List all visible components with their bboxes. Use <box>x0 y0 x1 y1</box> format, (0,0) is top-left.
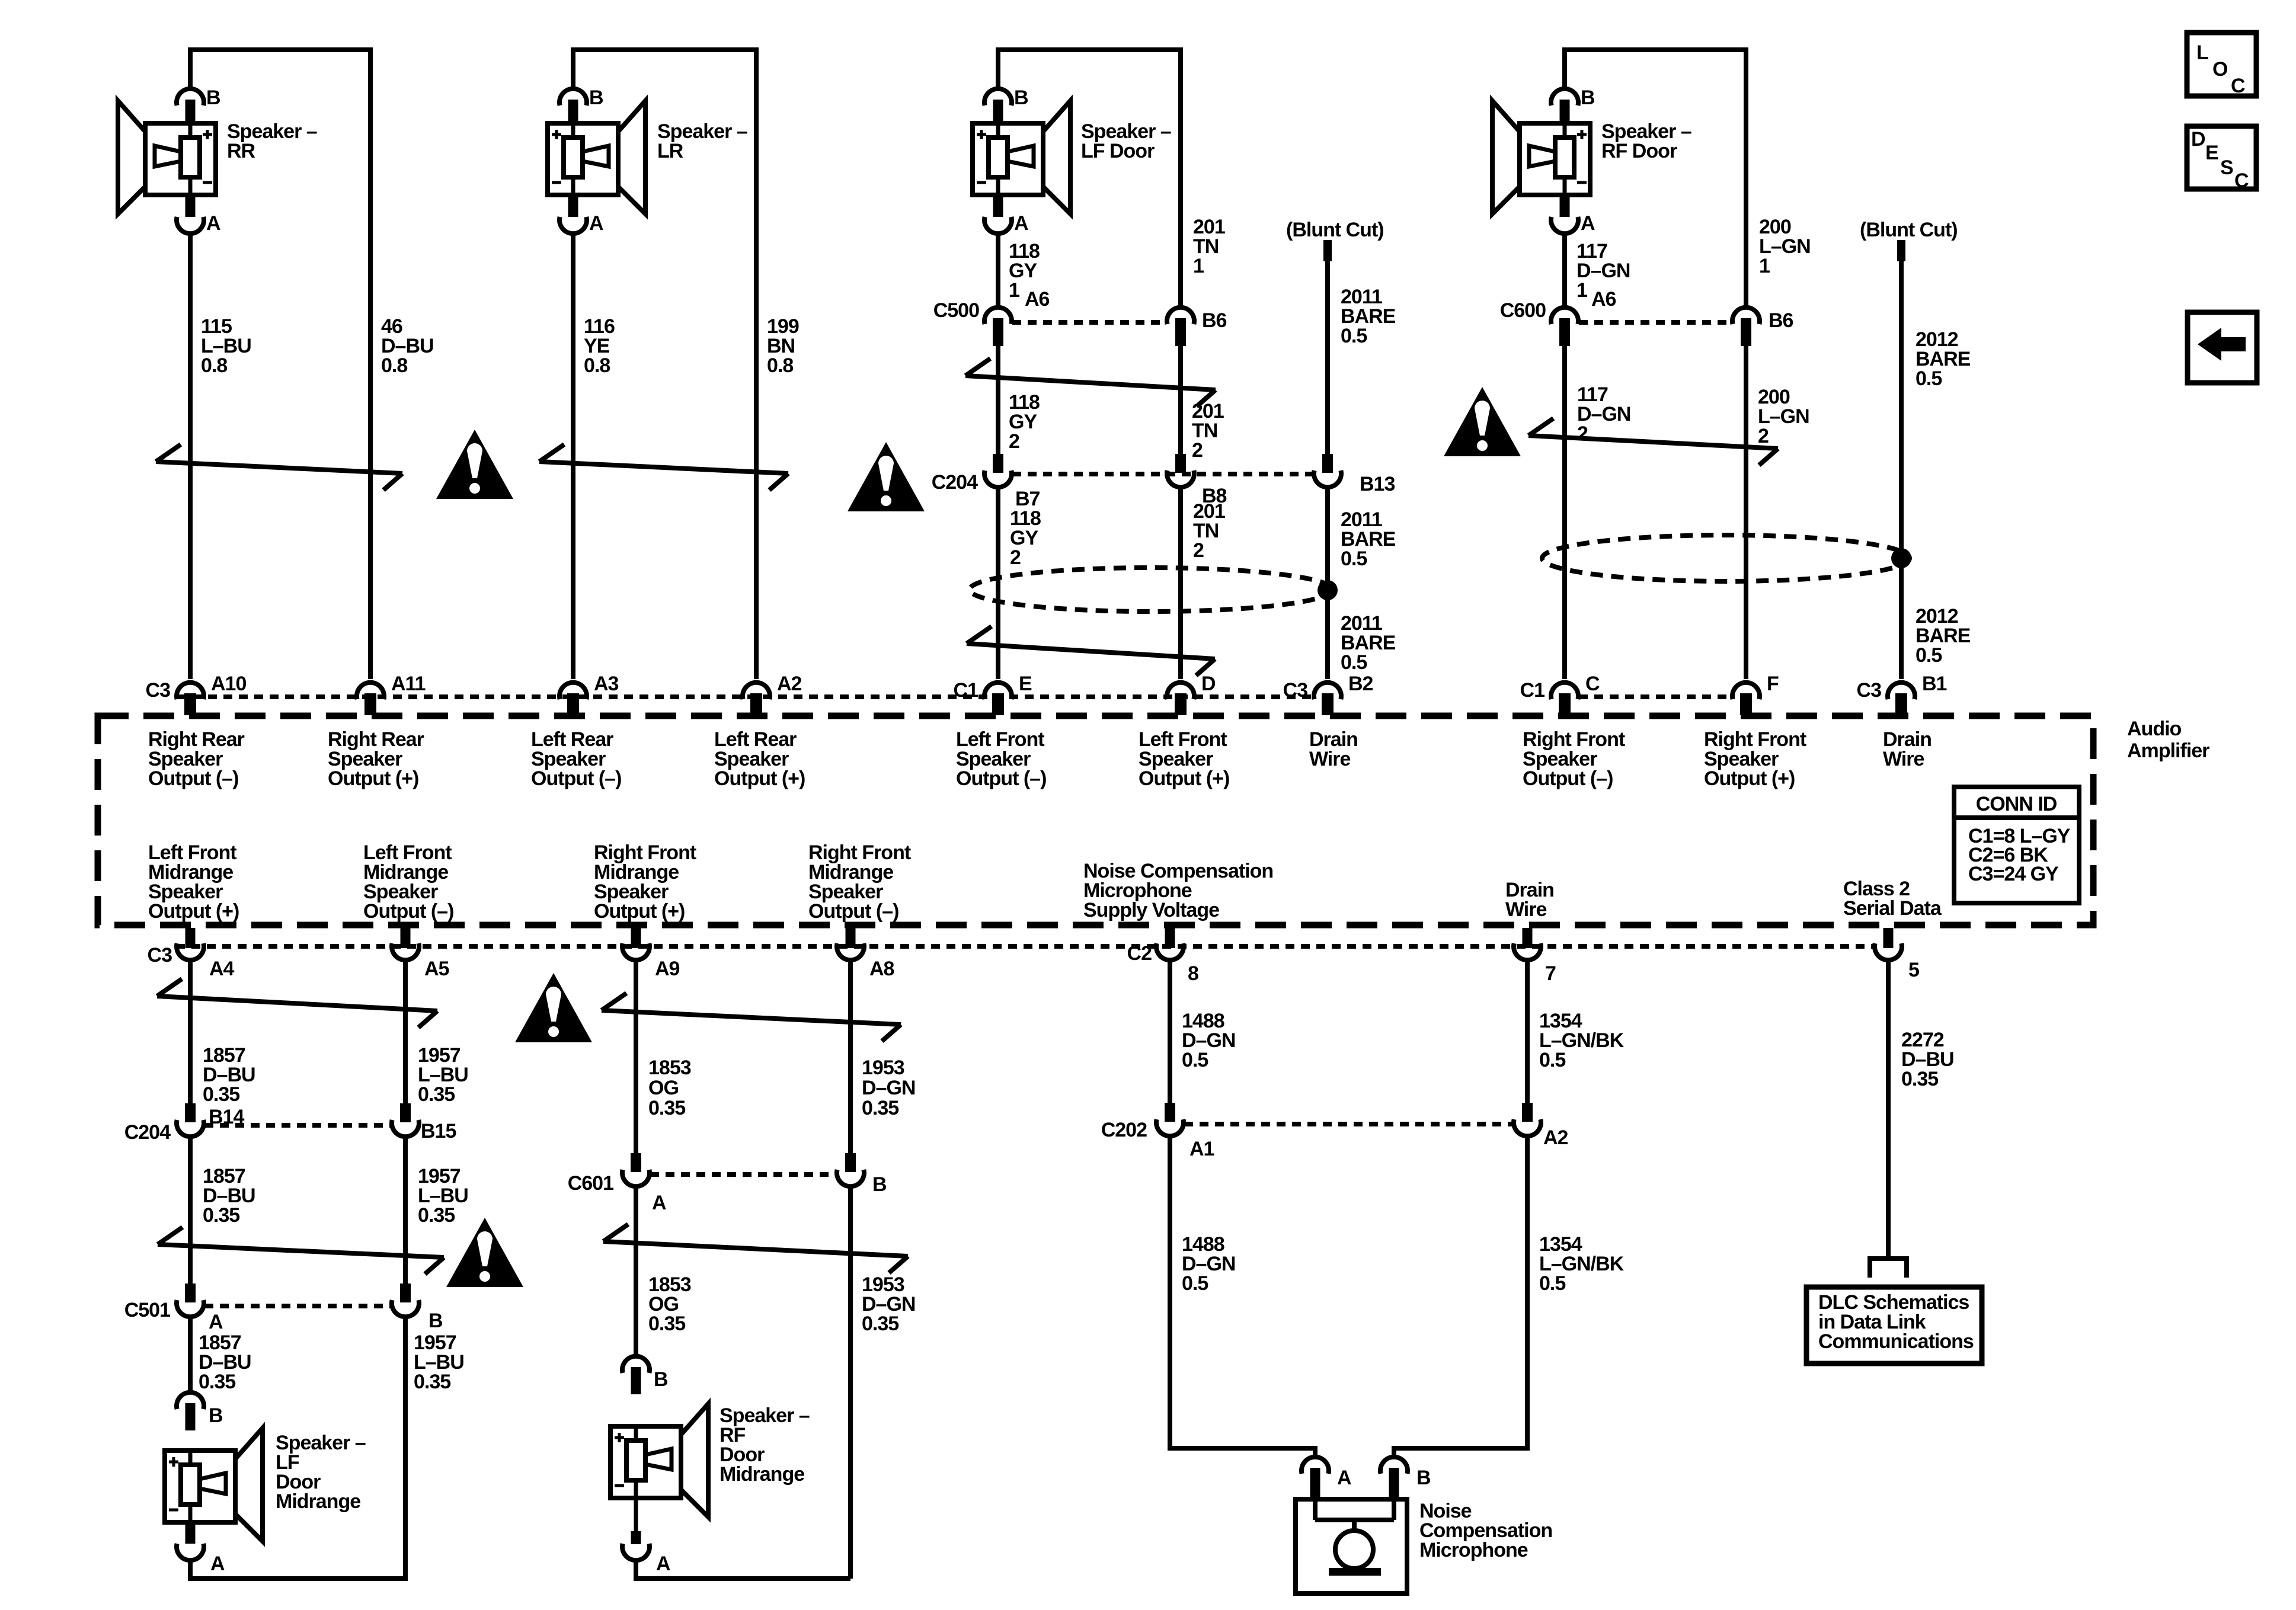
svg-text:Output (–): Output (–) <box>956 767 1046 790</box>
connector pin B of Speaker LR <box>559 89 587 105</box>
amp connector pin A8 <box>846 928 856 948</box>
twisted-pair symbol midrange left lower <box>158 1244 444 1257</box>
svg-text:B: B <box>206 87 220 109</box>
amp connector pin D <box>1167 683 1194 699</box>
svg-text:Output (+): Output (+) <box>1139 767 1229 790</box>
svg-text:A6: A6 <box>1025 288 1050 311</box>
svg-text:A: A <box>1581 212 1595 235</box>
warning triangle 2 <box>848 442 925 511</box>
speaker symbol Speaker - LR <box>618 101 645 214</box>
wire 1853 OG (amp A9 to C601) <box>634 961 638 1153</box>
connector C500 dashed line <box>1012 320 1166 325</box>
svg-text:A1: A1 <box>1189 1138 1214 1160</box>
connector C600 pin A6 <box>1551 308 1578 324</box>
svg-text:A: A <box>652 1192 666 1214</box>
svg-text:B1: B1 <box>1922 673 1947 695</box>
svg-text:E: E <box>1019 673 1032 695</box>
svg-text:A9: A9 <box>655 958 680 980</box>
svg-text:0.5: 0.5 <box>1341 651 1367 674</box>
svg-text:C: C <box>1585 673 1600 695</box>
connector pin B of Speaker LF Door <box>984 89 1012 105</box>
svg-text:C204: C204 <box>124 1121 171 1144</box>
svg-text:Output (+): Output (+) <box>148 900 239 923</box>
connector C202 dashed line <box>1184 1122 1513 1126</box>
svg-text:B: B <box>872 1173 887 1196</box>
twisted-pair symbol midrange left upper <box>157 996 437 1011</box>
svg-text:LR: LR <box>657 140 683 162</box>
svg-text:Output (–): Output (–) <box>808 900 898 923</box>
connector pin A of Speaker RF Door <box>1560 194 1570 217</box>
warning triangle 3 <box>1444 387 1521 456</box>
svg-text:A2: A2 <box>1543 1126 1568 1149</box>
warning triangle 1 <box>436 430 513 499</box>
wire 118 GY 2 (C204 to amp C1-E) <box>996 488 1000 679</box>
twisted-pair symbol RR pair <box>156 462 402 473</box>
warning triangle 5 <box>446 1218 523 1287</box>
svg-text:C: C <box>2234 169 2249 192</box>
blunt cut terminal left <box>1323 240 1332 261</box>
svg-text:0.35: 0.35 <box>414 1371 450 1393</box>
svg-text:Audio: Audio <box>2127 718 2182 740</box>
wire 1857 D-BU (C501 to LF midrange B) <box>188 1317 193 1392</box>
svg-text:CONN ID: CONN ID <box>1976 793 2057 815</box>
wire 1957 L-BU (C204 to C501) <box>403 1137 408 1283</box>
amp connector pin E <box>984 683 1012 699</box>
wire 1857 D-BU (amp A4 to C204) <box>188 961 193 1103</box>
shield ellipse right group <box>1542 535 1910 581</box>
wire 1354 L-GN/BK (amp 7 to C202) <box>1525 961 1530 1103</box>
svg-text:0.35: 0.35 <box>199 1371 235 1393</box>
amp connector pin 7 <box>1523 928 1533 948</box>
svg-text:0.35: 0.35 <box>648 1097 685 1119</box>
connector row C3/C2 dashed line (amp bottom) <box>176 944 1875 949</box>
wire 1857 D-BU (C204 to C501) <box>188 1137 193 1283</box>
speaker symbol Speaker - LF Door <box>1043 101 1070 214</box>
svg-text:Midrange: Midrange <box>276 1490 360 1513</box>
svg-text:A11: A11 <box>391 673 426 695</box>
wire 1853 OG (C601 to RF midrange B) <box>634 1187 638 1356</box>
svg-text:O: O <box>2212 58 2228 81</box>
CONN ID table box <box>1954 787 2079 903</box>
svg-text:Output (+): Output (+) <box>714 767 805 790</box>
amp connector pin A3 <box>559 683 587 699</box>
connector C204 pin B7 <box>993 454 1003 473</box>
svg-text:0.35: 0.35 <box>862 1313 898 1335</box>
svg-text:0.35: 0.35 <box>203 1204 239 1227</box>
svg-text:A3: A3 <box>594 673 619 695</box>
svg-text:LF Door: LF Door <box>1081 140 1155 162</box>
connector pin A of microphone <box>1302 1457 1329 1474</box>
svg-text:0.35: 0.35 <box>418 1204 455 1227</box>
svg-text:A10: A10 <box>211 673 246 695</box>
LOC legend box <box>2187 33 2256 96</box>
audio amplifier dashed box <box>98 716 2093 925</box>
wire 1488 D-GN (C202 to mic A) <box>1170 1137 1315 1457</box>
connector C501 pin B <box>400 1283 411 1302</box>
wire 200 L-GN 2 (C600 to amp C1-F) <box>1744 346 1748 679</box>
amp connector pin A11 <box>357 683 384 699</box>
svg-text:D–GN: D–GN <box>862 1077 915 1099</box>
twisted-pair symbol midrange right upper <box>602 1010 901 1025</box>
svg-text:2: 2 <box>1758 425 1769 447</box>
svg-text:A: A <box>210 1553 225 1575</box>
connector C202 pin A1 <box>1165 1103 1175 1122</box>
svg-text:C3: C3 <box>148 944 172 966</box>
back arrow <box>2198 328 2246 361</box>
svg-text:B: B <box>1581 87 1595 109</box>
svg-text:A: A <box>206 212 220 235</box>
svg-text:Communications: Communications <box>1818 1330 1974 1353</box>
wire: Speaker LF Door loop <box>998 50 1181 307</box>
connector C204 dashed line (top) <box>1012 472 1313 476</box>
wire 2011 BARE (C204 to splice) <box>1325 488 1330 679</box>
svg-text:B: B <box>589 87 603 109</box>
svg-text:C2: C2 <box>1127 942 1152 965</box>
wire RF midrange return loop <box>636 1561 850 1579</box>
svg-text:A: A <box>656 1553 670 1575</box>
connector C204 pin B15 <box>400 1103 411 1122</box>
splice node on drain wire left <box>1318 580 1338 600</box>
connector C204 pin B8 <box>1175 454 1186 473</box>
svg-text:C3: C3 <box>1857 679 1882 702</box>
wire 117 D-GN 1 (RF speaker A to C600) <box>1562 234 1567 307</box>
svg-text:0.5: 0.5 <box>1539 1049 1565 1071</box>
connector C204 pin B14 <box>185 1103 196 1122</box>
svg-text:5: 5 <box>1908 959 1919 981</box>
amp connector pin A4 <box>186 928 196 948</box>
svg-text:A: A <box>1337 1467 1351 1489</box>
svg-text:RR: RR <box>227 140 255 162</box>
connector C501 pin A <box>185 1283 196 1302</box>
svg-text:0.5: 0.5 <box>1916 644 1942 667</box>
wire 1354 L-GN/BK (C202 to mic B) <box>1394 1137 1527 1457</box>
wire 1953 D-GN (amp A8 to C601) <box>848 961 853 1153</box>
svg-text:A: A <box>589 212 603 235</box>
speaker symbol Speaker - RF Door <box>1492 101 1520 214</box>
svg-text:L: L <box>2196 41 2208 64</box>
svg-text:1: 1 <box>1193 255 1204 277</box>
amp connector pin A9 <box>631 928 641 948</box>
svg-text:1: 1 <box>1759 255 1770 277</box>
wire 1957 L-BU (amp A5 to C204) <box>403 961 408 1103</box>
speaker symbol Speaker - RF Door Midrange <box>681 1404 708 1517</box>
connector pin B of LF Door Midrange <box>177 1393 204 1409</box>
connector pin A of Speaker LR <box>568 194 578 217</box>
svg-text:B: B <box>209 1404 223 1427</box>
svg-text:Output (–): Output (–) <box>148 767 238 790</box>
connector C500 pin B6 <box>1167 308 1194 324</box>
svg-text:C501: C501 <box>124 1299 170 1321</box>
svg-text:C1: C1 <box>1520 679 1545 702</box>
svg-text:0.35: 0.35 <box>203 1083 239 1106</box>
svg-text:Output (–): Output (–) <box>1523 767 1613 790</box>
wire 118 GY 2 (C500 to C204) <box>996 346 1000 454</box>
wire LF midrange return loop <box>190 1317 405 1579</box>
svg-text:C: C <box>2231 75 2245 97</box>
wire: Speaker LR loop <box>573 50 756 679</box>
connector pin A of Speaker RR <box>186 194 196 217</box>
shield ellipse left group <box>970 568 1332 612</box>
twisted-pair symbol LR pair <box>539 462 788 473</box>
label DLC Schematics in Data Link Communications <box>1818 1291 1974 1353</box>
connector row C3/C1 dashed line (amp top) <box>177 694 1313 699</box>
connector C600 pin B6 <box>1732 308 1760 324</box>
svg-text:2: 2 <box>1192 439 1203 462</box>
connector pin B of microphone <box>1380 1457 1408 1474</box>
wire 116 YE (LR speaker A to amp A3) <box>571 234 575 679</box>
svg-text:1953: 1953 <box>862 1057 904 1079</box>
svg-text:B14: B14 <box>209 1106 244 1128</box>
svg-text:0.35: 0.35 <box>418 1083 455 1106</box>
svg-text:A2: A2 <box>777 673 802 695</box>
amp connector pin A10 <box>177 683 204 699</box>
svg-text:0.8: 0.8 <box>381 354 407 377</box>
wire 201 TN 2 (C204 to amp C1-D) <box>1178 488 1183 679</box>
svg-text:B: B <box>428 1310 443 1332</box>
svg-text:Output (+): Output (+) <box>594 900 685 923</box>
connector pin B of Speaker RF Door <box>1551 89 1578 105</box>
svg-text:0.5: 0.5 <box>1182 1272 1208 1295</box>
svg-text:C3: C3 <box>146 679 171 702</box>
amp connector pin 8 <box>1165 928 1175 948</box>
connector C501 dashed line <box>204 1304 391 1308</box>
svg-text:Output (–): Output (–) <box>363 900 453 923</box>
svg-text:A8: A8 <box>869 958 894 980</box>
noise compensation microphone symbol <box>1296 1499 1407 1593</box>
splice node on drain wire right <box>1891 548 1911 568</box>
svg-text:C204: C204 <box>932 471 978 494</box>
wire: Speaker RF Door loop <box>1565 50 1746 307</box>
svg-text:Midrange: Midrange <box>720 1463 804 1486</box>
amp connector pin C <box>1551 683 1578 699</box>
wire 1488 D-GN (amp C2-8 to C202) <box>1168 961 1172 1103</box>
connector C601 dashed line <box>650 1172 836 1177</box>
svg-text:D: D <box>2191 128 2205 151</box>
svg-text:1: 1 <box>1576 279 1587 302</box>
off-page connector to DLC <box>1870 1259 1907 1278</box>
speaker symbol Speaker - LF Door Midrange <box>235 1428 263 1541</box>
svg-text:0.5: 0.5 <box>1539 1272 1565 1295</box>
svg-text:B2: B2 <box>1348 673 1373 695</box>
svg-text:Wire: Wire <box>1883 748 1924 770</box>
svg-text:A: A <box>1014 212 1028 235</box>
svg-text:0.5: 0.5 <box>1341 325 1367 347</box>
connector pin B of Speaker RR <box>177 89 204 105</box>
drain wire 2011 BARE upper <box>1325 261 1330 454</box>
wire 117 D-GN 2 (C600 to amp C1-C) <box>1562 346 1567 679</box>
svg-text:F: F <box>1767 673 1779 695</box>
svg-text:1853: 1853 <box>648 1057 691 1079</box>
svg-text:Wire: Wire <box>1309 748 1350 770</box>
drain wire 2012 BARE <box>1899 261 1904 679</box>
svg-text:8: 8 <box>1188 962 1198 985</box>
svg-text:A5: A5 <box>424 958 449 980</box>
svg-text:D: D <box>1201 673 1216 695</box>
svg-text:0.8: 0.8 <box>767 354 793 377</box>
amp connector pin A5 <box>401 928 411 948</box>
svg-text:B6: B6 <box>1769 309 1793 332</box>
amp connector pin B1 <box>1888 683 1915 699</box>
connector C600 dashed line <box>1579 320 1732 325</box>
svg-text:Wire: Wire <box>1505 898 1546 921</box>
svg-text:B6: B6 <box>1202 309 1227 332</box>
svg-text:Output (+): Output (+) <box>328 767 418 790</box>
svg-text:2: 2 <box>1010 546 1021 569</box>
svg-text:2: 2 <box>1577 422 1588 445</box>
svg-text:0.35: 0.35 <box>862 1097 898 1119</box>
svg-text:1: 1 <box>1009 279 1019 302</box>
svg-text:C3=24 GY: C3=24 GY <box>1968 863 2059 885</box>
svg-text:0.5: 0.5 <box>1341 548 1367 570</box>
svg-text:C500: C500 <box>933 299 979 322</box>
connector pin A of Speaker LF Door <box>993 194 1003 217</box>
svg-text:(Blunt Cut): (Blunt Cut) <box>1860 219 1958 241</box>
connector C500 pin A6 <box>984 308 1012 324</box>
warning triangle 4 <box>515 973 592 1042</box>
svg-text:C202: C202 <box>1101 1119 1147 1141</box>
svg-text:Output (–): Output (–) <box>531 767 621 790</box>
svg-text:S: S <box>2220 156 2233 179</box>
svg-text:C600: C600 <box>1500 299 1546 322</box>
svg-text:OG: OG <box>648 1077 679 1099</box>
amp connector pin F <box>1732 683 1760 699</box>
speaker symbol Speaker - RR <box>118 101 145 214</box>
svg-text:0.8: 0.8 <box>201 354 227 377</box>
svg-text:0.5: 0.5 <box>1916 367 1942 390</box>
twisted-pair symbol midrange right lower <box>603 1241 908 1256</box>
svg-text:RF Door: RF Door <box>1601 140 1677 162</box>
twisted-pair symbol RF pair <box>1528 436 1778 449</box>
connector pin B of RF Door Midrange <box>622 1356 650 1373</box>
connector pin A of LF Door Midrange <box>186 1521 196 1544</box>
svg-text:B: B <box>1014 87 1028 109</box>
svg-text:7: 7 <box>1545 962 1556 985</box>
connector C601 pin A <box>631 1153 641 1172</box>
svg-text:Output (+): Output (+) <box>1704 767 1795 790</box>
svg-text:C3: C3 <box>1283 679 1308 702</box>
svg-text:B: B <box>1416 1467 1431 1489</box>
svg-text:Amplifier: Amplifier <box>2127 740 2209 762</box>
svg-text:2: 2 <box>1193 539 1204 562</box>
connector C204 pin B13 <box>1322 454 1333 473</box>
twisted-pair symbol LF pair lower <box>967 644 1215 659</box>
blunt cut terminal right <box>1897 240 1905 261</box>
wire 2272 D-BU (amp 5 to DLC) <box>1886 961 1891 1259</box>
svg-text:0.8: 0.8 <box>584 354 610 377</box>
svg-text:A: A <box>209 1311 223 1333</box>
svg-text:2: 2 <box>1009 430 1019 453</box>
svg-text:Supply Voltage: Supply Voltage <box>1083 899 1219 921</box>
svg-text:0.5: 0.5 <box>1182 1049 1208 1071</box>
svg-text:B15: B15 <box>421 1120 456 1142</box>
DLC Schematics reference box <box>1806 1287 1982 1363</box>
wire 201 TN 2 (C500 to C204) <box>1178 346 1183 454</box>
back arrow legend box <box>2188 312 2257 383</box>
twisted-pair symbol LF pair upper <box>965 376 1216 390</box>
svg-text:E: E <box>2205 142 2218 164</box>
svg-text:A4: A4 <box>209 958 235 980</box>
svg-text:C601: C601 <box>568 1172 613 1195</box>
amp connector pin 5 <box>1884 928 1894 948</box>
amp connector pin B2 <box>1314 683 1341 699</box>
svg-text:B: B <box>654 1368 668 1391</box>
wire: Speaker RR loop (top/right) <box>190 50 370 679</box>
wire 1953 D-GN (C601 to loop) <box>848 1187 853 1579</box>
wire 115 L-BU (RR speaker A to amp A10) <box>188 234 193 679</box>
amp connector pin A2 <box>743 683 770 699</box>
connector C202 pin A2 <box>1522 1103 1533 1122</box>
svg-text:0.35: 0.35 <box>1901 1068 1938 1090</box>
connector C204 dashed line (bottom) <box>204 1123 391 1128</box>
svg-text:B13: B13 <box>1360 473 1395 495</box>
wire 118 GY 1 (LF speaker A to C500) <box>996 234 1000 307</box>
connector pin A of RF Door Midrange <box>634 1497 638 1532</box>
svg-text:A6: A6 <box>1591 288 1616 311</box>
svg-text:0.35: 0.35 <box>648 1313 685 1335</box>
connector C601 pin B <box>845 1153 856 1172</box>
DESC legend box <box>2187 126 2256 189</box>
svg-text:C1: C1 <box>954 679 978 702</box>
svg-text:(Blunt Cut): (Blunt Cut) <box>1286 219 1384 241</box>
svg-text:Serial Data: Serial Data <box>1843 897 1942 920</box>
svg-text:Microphone: Microphone <box>1419 1539 1528 1561</box>
